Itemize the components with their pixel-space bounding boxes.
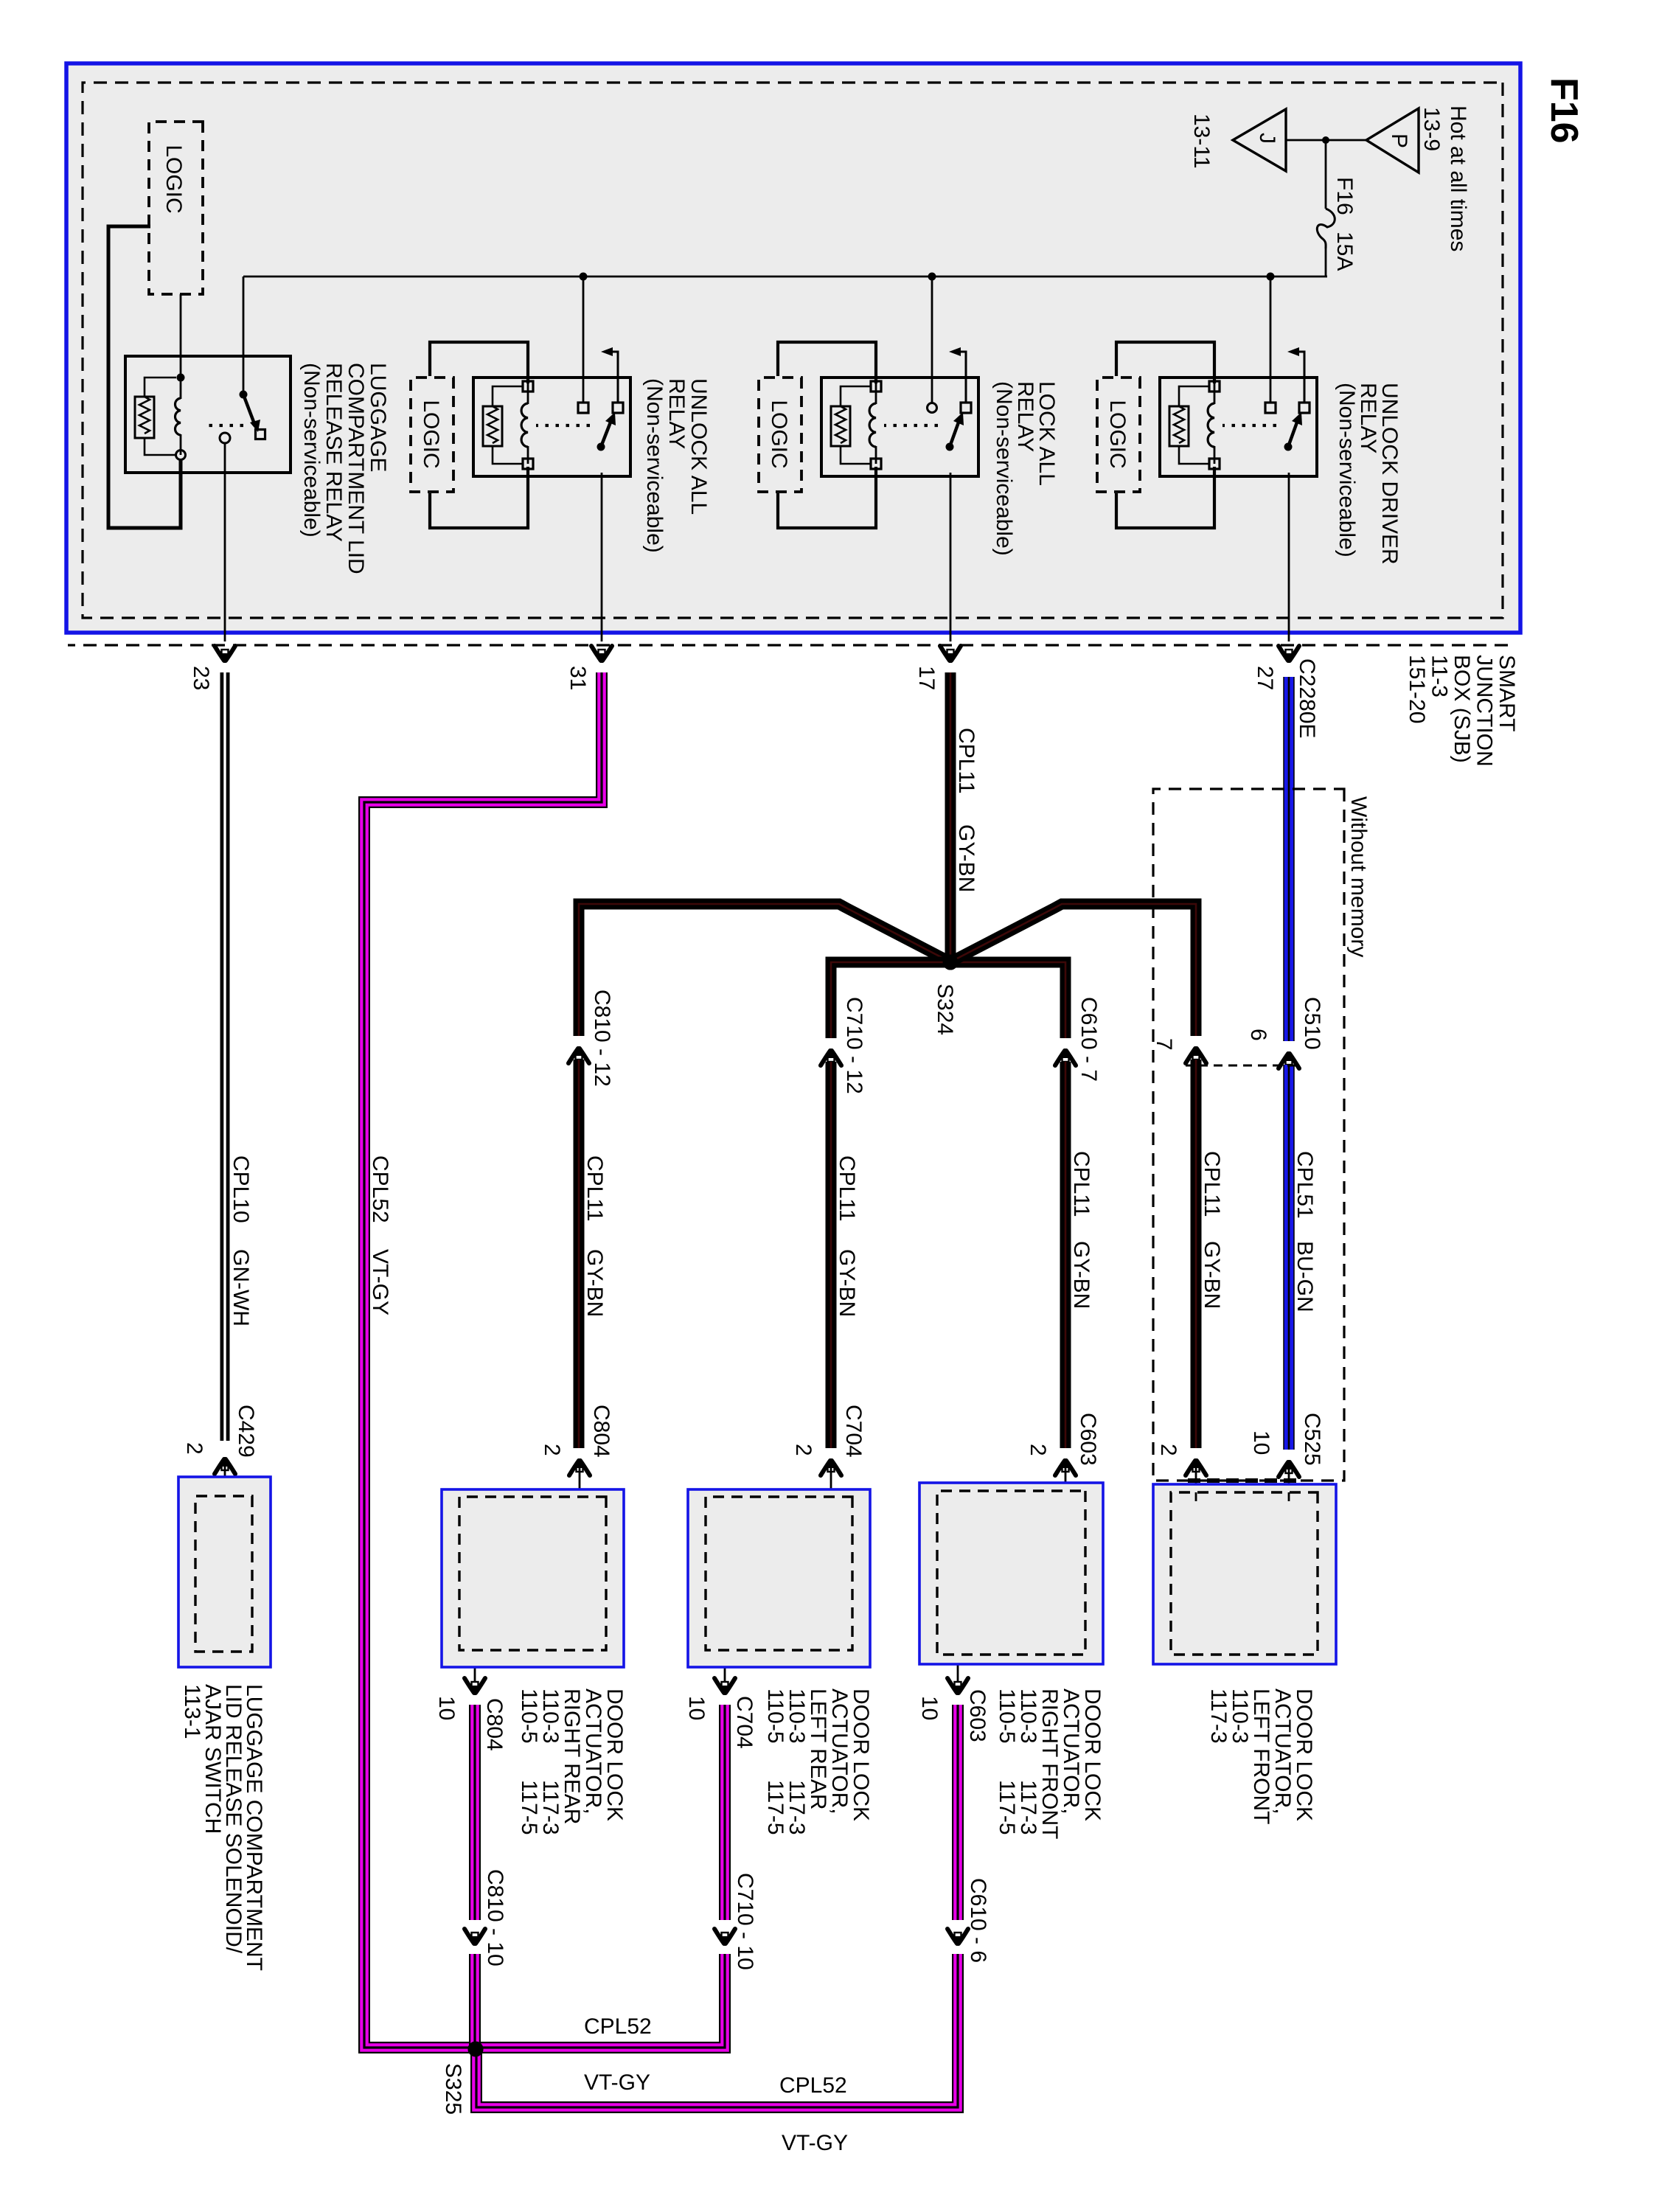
relay switch contact terminal [1265, 403, 1276, 413]
wire CPL11 to right front actuator [1060, 1062, 1071, 1448]
svg-text:P: P [1387, 133, 1411, 148]
connector C610 pin 6 arrow [947, 1929, 968, 1945]
LOGIC box of luggage relay [149, 122, 203, 294]
svg-text:2: 2 [791, 1444, 815, 1456]
svg-text:RELAY: RELAY [1356, 383, 1380, 453]
lower CPL52 bus to right front actuator [476, 1954, 958, 2107]
svg-text:CPL52: CPL52 [779, 2073, 847, 2098]
Without memory dashed box [1153, 789, 1344, 1481]
svg-text:GY-BN: GY-BN [835, 1249, 859, 1317]
svg-text:C810 - 12: C810 - 12 [590, 990, 614, 1087]
svg-text:LUGGAGE: LUGGAGE [366, 363, 390, 472]
wire to left rear actuator bottom [714, 1954, 725, 2048]
splice S325 dot overlay [468, 2042, 484, 2057]
wire P to junction [1326, 139, 1366, 142]
svg-text:110-3: 110-3 [1016, 1688, 1040, 1744]
relay coil [875, 381, 877, 404]
relay switch blade [1284, 443, 1293, 451]
svg-text:GY-BN: GY-BN [1200, 1241, 1224, 1309]
box DOOR LOCK ACTUATOR RIGHT FRONT [919, 1483, 1103, 1664]
svg-text:ACTUATOR,: ACTUATOR, [1059, 1688, 1083, 1815]
wire coil to LOGIC left [1116, 342, 1214, 383]
svg-text:CPL11: CPL11 [835, 1155, 859, 1222]
svg-text:110-5: 110-5 [763, 1688, 787, 1744]
connector C603 pin 2 arrow [1055, 1459, 1076, 1475]
connector C810 pin 12 arrow [568, 1047, 589, 1063]
LOGIC driver box [411, 378, 453, 492]
hook arrow (circuit continues) [959, 352, 966, 403]
connector pin 7 arrow [1186, 1047, 1206, 1063]
relay coil [527, 381, 529, 404]
wire coil to LOGIC left [778, 342, 876, 383]
hook arrow (circuit continues) [611, 352, 618, 403]
splice S324 [943, 955, 959, 970]
wire CPL52 VT-GY from pin 31 [364, 672, 719, 2048]
svg-text:117-5: 117-5 [517, 1780, 541, 1835]
svg-text:(Non-serviceable): (Non-serviceable) [299, 363, 324, 538]
svg-text:13-9: 13-9 [1419, 107, 1444, 151]
relay suppression resistor [831, 406, 850, 446]
svg-text:117-5: 117-5 [995, 1780, 1019, 1835]
pin 27 connector arrow [1279, 646, 1299, 662]
svg-text:10: 10 [434, 1696, 459, 1720]
wire into left front actuator [1288, 1466, 1290, 1497]
svg-text:VT-GY: VT-GY [782, 2131, 848, 2155]
svg-text:15A: 15A [1332, 232, 1357, 271]
power triangle P [1366, 108, 1419, 173]
svg-text:C603: C603 [1076, 1413, 1100, 1466]
wire junction to fuse [1325, 140, 1327, 209]
svg-text:C804: C804 [589, 1405, 613, 1458]
svg-text:C710 - 12: C710 - 12 [842, 997, 866, 1094]
svg-text:17: 17 [914, 666, 939, 690]
svg-text:117-3: 117-3 [1206, 1688, 1231, 1744]
svg-text:RIGHT REAR: RIGHT REAR [560, 1688, 584, 1824]
svg-text:6: 6 [1246, 1029, 1270, 1041]
relay case [1160, 378, 1317, 476]
svg-text:RELAY: RELAY [1013, 381, 1037, 452]
svg-text:DOOR LOCK: DOOR LOCK [1080, 1688, 1105, 1821]
svg-text:CPL10: CPL10 [229, 1155, 253, 1223]
wires inside left front box [1288, 1492, 1290, 1501]
connector C525 pin 10 arrow [1279, 1461, 1299, 1477]
svg-text:C704: C704 [732, 1696, 757, 1749]
connector C710 pin 10 arrow [714, 1929, 735, 1945]
connector C525 pin 2 arrow [1186, 1459, 1206, 1475]
branch to pin 7 (left front) [956, 904, 1196, 1036]
svg-text:2: 2 [1156, 1444, 1180, 1456]
svg-text:LOCK ALL: LOCK ALL [1034, 381, 1059, 486]
svg-text:LEFT REAR: LEFT REAR [806, 1688, 830, 1810]
relay switch blade [946, 443, 954, 451]
connector C610 pin 7 arrow [1055, 1049, 1076, 1065]
splice S324 dot overlay [943, 955, 959, 970]
thick return loop LOGIC1 [108, 226, 181, 528]
wire coil to LOGIC right [778, 467, 876, 528]
connector C525 thick dashed line [1186, 1478, 1296, 1483]
svg-text:COMPARTMENT LID: COMPARTMENT LID [344, 363, 368, 574]
svg-text:31: 31 [566, 666, 590, 690]
svg-text:DOOR LOCK: DOOR LOCK [849, 1688, 873, 1821]
svg-text:10: 10 [917, 1696, 942, 1720]
node bus junction [580, 273, 588, 281]
relay coil [1214, 381, 1216, 404]
svg-text:C510: C510 [1300, 997, 1324, 1050]
relay switch contact terminal [578, 403, 588, 413]
svg-text:LOGIC: LOGIC [419, 400, 443, 468]
svg-text:(Non-serviceable): (Non-serviceable) [642, 378, 667, 553]
LOGIC driver box [759, 378, 801, 492]
svg-text:GY-BN: GY-BN [954, 824, 978, 892]
svg-text:C710 - 10: C710 - 10 [733, 1873, 757, 1970]
box DOOR LOCK ACTUATOR LEFT FRONT [1153, 1484, 1336, 1664]
box DOOR LOCK ACTUATOR LEFT REAR [688, 1489, 870, 1667]
svg-text:VT-GY: VT-GY [584, 2070, 650, 2095]
node bus junction [1267, 273, 1275, 281]
svg-text:10: 10 [1249, 1430, 1273, 1455]
svg-text:C610 - 6: C610 - 6 [966, 1878, 990, 1963]
LOGIC driver box [1097, 378, 1140, 492]
svg-text:J: J [1255, 133, 1279, 144]
power bus vertical [243, 276, 1327, 278]
pin 27 wire out [1288, 473, 1290, 641]
wire coil to LOGIC left [430, 342, 528, 383]
node bus junction [928, 273, 936, 281]
svg-text:13-11: 13-11 [1189, 114, 1214, 169]
relay actuation dotted link [884, 424, 938, 427]
relay actuation dotted link [1222, 424, 1276, 427]
svg-text:C610 - 7: C610 - 7 [1077, 997, 1101, 1082]
wire bus to contact [931, 276, 933, 403]
svg-text:C704: C704 [841, 1405, 866, 1458]
node power junction [1322, 136, 1329, 144]
wire CPL11 GY-BN from pin 17 [945, 672, 956, 958]
svg-text:23: 23 [189, 666, 213, 690]
wire right rear actuator bottom to S325 [474, 1652, 476, 1683]
svg-text:110-3: 110-3 [785, 1688, 809, 1744]
svg-text:2: 2 [182, 1442, 206, 1455]
svg-text:JUNCTION: JUNCTION [1472, 655, 1497, 767]
hook arrow (circuit continues) [1298, 352, 1304, 403]
relay case [473, 378, 630, 476]
relay switch contact terminal [928, 403, 937, 413]
svg-text:2: 2 [540, 1444, 564, 1456]
svg-text:GY-BN: GY-BN [582, 1249, 607, 1317]
wire coil to LOGIC right [1116, 467, 1214, 528]
connector C804 pin 10 arrow [465, 1678, 485, 1694]
connector C510 pin 6 arrow [1279, 1052, 1299, 1068]
svg-text:110-3: 110-3 [1228, 1688, 1252, 1744]
svg-text:117-3: 117-3 [1016, 1780, 1040, 1835]
svg-text:(Non-serviceable): (Non-serviceable) [1335, 383, 1359, 557]
svg-text:C810 - 10: C810 - 10 [483, 1869, 507, 1966]
box LUGGAGE COMPARTMENT LID RELEASE SOLENOID [178, 1477, 271, 1667]
fuse F16 15A [1317, 209, 1335, 248]
relay case [821, 378, 978, 476]
relay suppression resistor [483, 406, 502, 446]
svg-text:UNLOCK DRIVER: UNLOCK DRIVER [1377, 383, 1402, 565]
svg-text:10: 10 [684, 1696, 709, 1720]
branch to C710-12 (left rear) [831, 962, 945, 1038]
smart junction box (SJB) outline [66, 63, 1520, 633]
svg-text:(Non-serviceable): (Non-serviceable) [992, 381, 1016, 556]
splice S325 [468, 2042, 484, 2057]
wire LOGIC1 to coil [180, 294, 182, 373]
svg-text:F16: F16 [1332, 177, 1357, 215]
connector C710 pin 12 arrow [821, 1049, 841, 1065]
wire bus to contact [1270, 276, 1272, 403]
relay actuation dotted link [536, 424, 590, 427]
svg-text:C429: C429 [234, 1405, 258, 1458]
pin 31 connector arrow [591, 646, 612, 662]
box DOOR LOCK ACTUATOR RIGHT REAR [442, 1489, 624, 1667]
wire CPL11 to left front actuator [1191, 1060, 1202, 1448]
svg-text:7: 7 [1152, 1038, 1176, 1051]
relay LUGGAGE COMPARTMENT LID RELEASE RELAY [125, 356, 291, 473]
svg-text:11-3: 11-3 [1427, 655, 1452, 698]
wire CPL11 to left rear actuator [826, 1062, 837, 1448]
svg-text:LOGIC: LOGIC [1105, 400, 1130, 468]
svg-text:DOOR LOCK: DOOR LOCK [1292, 1688, 1316, 1821]
svg-text:CPL51: CPL51 [1293, 1151, 1317, 1219]
relay switch pivot terminal [1299, 403, 1310, 413]
svg-text:RELAY: RELAY [664, 378, 689, 449]
SJB inner dashed boundary [83, 83, 1503, 618]
svg-text:ACTUATOR,: ACTUATOR, [827, 1688, 852, 1815]
svg-text:CPL11: CPL11 [582, 1155, 607, 1222]
branch to C610-7 (right front) [956, 962, 1065, 1038]
relay switch pivot terminal [961, 403, 971, 413]
svg-text:Hot at all times: Hot at all times [1446, 105, 1470, 251]
svg-text:C603: C603 [965, 1689, 990, 1742]
connector C429 pin 2 arrow [215, 1458, 235, 1474]
svg-text:2: 2 [1026, 1444, 1050, 1456]
pin 23 connector arrow [215, 646, 235, 662]
triangle J (13-11) [1233, 109, 1286, 171]
svg-text:RIGHT FRONT: RIGHT FRONT [1037, 1688, 1062, 1839]
svg-text:27: 27 [1253, 666, 1277, 690]
svg-text:CPL52: CPL52 [368, 1155, 392, 1223]
connector C603 pin 10 arrow [947, 1678, 968, 1694]
branch to C810-12 (right rear) [579, 904, 945, 1036]
svg-text:BOX (SJB): BOX (SJB) [1450, 655, 1474, 763]
svg-text:C525: C525 [1300, 1413, 1324, 1466]
svg-text:LOGIC: LOGIC [161, 145, 186, 213]
svg-text:C804: C804 [482, 1698, 507, 1751]
wire fuse to bus [1325, 248, 1327, 276]
wire CPL51 BU-GN to C525 [1283, 1065, 1295, 1450]
svg-text:UNLOCK ALL: UNLOCK ALL [686, 378, 711, 515]
svg-text:117-3: 117-3 [538, 1780, 563, 1835]
svg-text:113-1: 113-1 [180, 1684, 204, 1739]
svg-text:ACTUATOR,: ACTUATOR, [581, 1688, 605, 1815]
pin 17 connector arrow [940, 646, 961, 662]
svg-text:110-5: 110-5 [995, 1688, 1019, 1744]
connector C2280E boundary dashed line [68, 644, 1508, 646]
svg-text:117-5: 117-5 [763, 1780, 787, 1835]
svg-text:110-3: 110-3 [538, 1688, 563, 1744]
svg-text:CPL52: CPL52 [584, 2014, 652, 2039]
svg-text:C2280E: C2280E [1295, 658, 1319, 738]
svg-text:LEFT FRONT: LEFT FRONT [1249, 1688, 1273, 1824]
svg-text:SMART: SMART [1495, 655, 1519, 731]
wire bus to contact [582, 276, 585, 403]
svg-text:DOOR LOCK: DOOR LOCK [602, 1688, 627, 1821]
svg-text:CPL11: CPL11 [954, 728, 978, 794]
relay switch blade [597, 443, 605, 451]
wire junction to J triangle [1286, 139, 1326, 142]
pin 17 wire out [950, 473, 952, 641]
svg-text:F16: F16 [1543, 77, 1585, 144]
svg-text:VT-GY: VT-GY [368, 1249, 392, 1315]
wire coil to LOGIC right [430, 467, 528, 528]
svg-text:S325: S325 [441, 2063, 465, 2115]
connector C804 pin 2 arrow [569, 1459, 590, 1475]
connector C704 pin 2 arrow [821, 1459, 841, 1475]
svg-text:S324: S324 [933, 984, 957, 1035]
svg-text:117-3: 117-3 [785, 1780, 809, 1835]
connector C510 dashed line [1186, 1065, 1296, 1067]
connector C704 pin 10 arrow [714, 1678, 735, 1694]
connector C810 pin 10 arrow [465, 1929, 485, 1945]
svg-text:BU-GN: BU-GN [1293, 1241, 1317, 1312]
svg-text:Without memory: Without memory [1346, 796, 1371, 957]
wire CPL51 BU-GN from pin 27 [1283, 677, 1295, 1041]
wire CPL11 to right rear actuator [574, 1060, 585, 1448]
svg-text:110-5: 110-5 [517, 1688, 541, 1744]
pin 31 wire out [601, 473, 603, 641]
relay suppression resistor [1169, 406, 1189, 446]
svg-text:LOGIC: LOGIC [767, 400, 791, 468]
svg-text:151-20: 151-20 [1405, 655, 1429, 723]
svg-text:ACTUATOR,: ACTUATOR, [1270, 1688, 1295, 1815]
svg-text:GY-BN: GY-BN [1069, 1241, 1093, 1309]
svg-text:CPL11: CPL11 [1200, 1151, 1224, 1217]
svg-text:GN-WH: GN-WH [229, 1249, 253, 1326]
relay switch pivot terminal [613, 403, 623, 413]
svg-text:RELEASE RELAY: RELEASE RELAY [321, 363, 346, 542]
wire CPL10 GN-WH from pin 23 [220, 672, 230, 1441]
svg-text:CPL11: CPL11 [1069, 1151, 1093, 1217]
